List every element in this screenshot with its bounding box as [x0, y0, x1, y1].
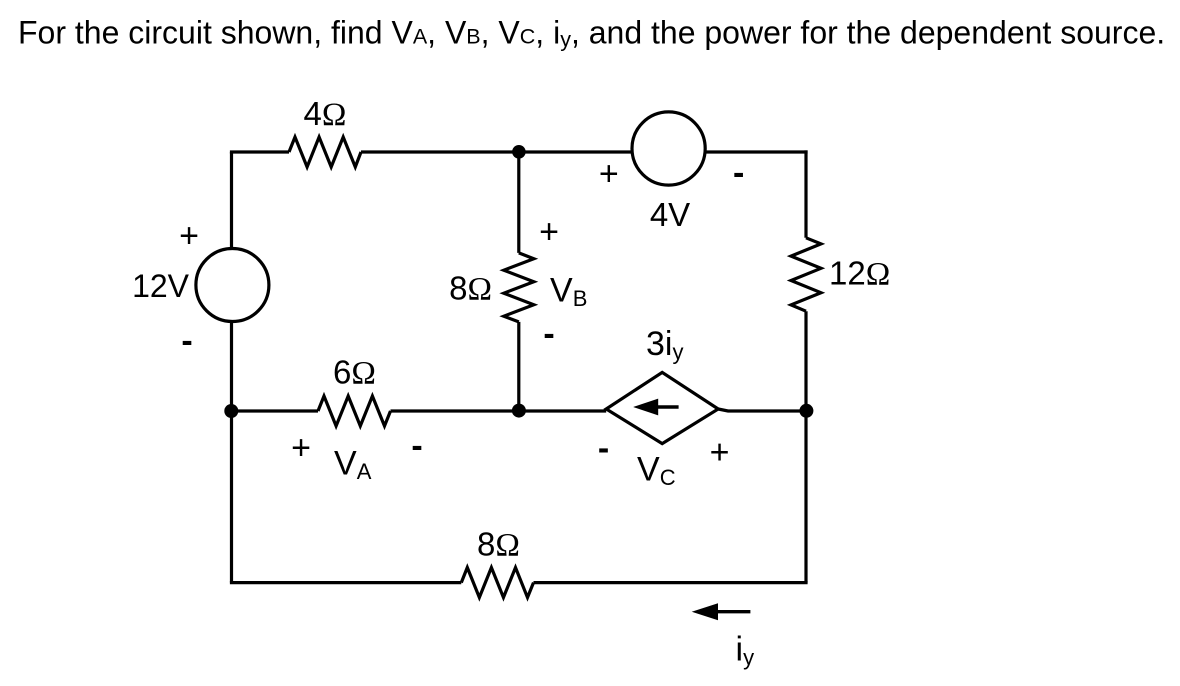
svg-text:3iy: 3iy: [646, 325, 683, 365]
wire middle vertical lower: [517, 322, 520, 411]
svg-text:8Ω: 8Ω: [449, 269, 492, 307]
svg-text:12Ω: 12Ω: [829, 255, 890, 293]
svg-text:VA: VA: [334, 445, 372, 485]
resistor R 12ohm: [791, 238, 821, 311]
node dot top: [512, 145, 526, 159]
voltage source 12V: [196, 249, 269, 322]
svg-text:For the circuit shown, find VA: For the circuit shown, find VA, VB, VC, …: [18, 15, 1165, 52]
wire right vertical upper: [804, 150, 807, 237]
wire left vertical middle: [230, 322, 233, 412]
svg-text:8Ω: 8Ω: [477, 526, 520, 564]
wire middle row second segment: [391, 409, 607, 412]
svg-text:6Ω: 6Ω: [333, 354, 376, 392]
wire top middle segment: [361, 150, 632, 153]
svg-text:4Ω: 4Ω: [304, 95, 347, 133]
wire middle vertical upper: [517, 152, 520, 253]
resistor R 4ohm: [289, 137, 361, 167]
svg-text:+: +: [291, 429, 311, 467]
current arrow iy: [692, 603, 751, 620]
arrow inside dependent source: [633, 399, 678, 416]
wire top right segment: [705, 150, 808, 153]
node dot right: [799, 404, 813, 418]
svg-text:VB: VB: [550, 272, 587, 312]
resistor R 8ohm bottom: [461, 568, 533, 598]
svg-text:-: -: [733, 154, 744, 192]
svg-text:+: +: [179, 217, 199, 255]
wire middle row right segment: [718, 409, 806, 411]
svg-text:12V: 12V: [132, 268, 190, 304]
wire left vertical lower: [230, 411, 233, 583]
dependent source 3iy diamond: [606, 372, 718, 443]
wire top left segment: [230, 150, 289, 153]
svg-text:-: -: [181, 322, 192, 360]
svg-text:-: -: [543, 315, 554, 353]
svg-text:VC: VC: [637, 450, 676, 490]
resistor R 8ohm middle: [504, 253, 534, 322]
node dot middle: [512, 404, 526, 418]
svg-text:4V: 4V: [650, 196, 690, 233]
resistor R 6ohm: [318, 396, 391, 426]
wire top-left vertical: [230, 152, 233, 249]
wire bottom right segment: [534, 581, 808, 584]
svg-text:-: -: [598, 429, 609, 467]
voltage source 4V: [632, 112, 705, 185]
svg-text:+: +: [539, 213, 559, 251]
svg-text:+: +: [599, 155, 619, 193]
wire bottom left segment: [230, 581, 461, 584]
wire middle row left segment: [232, 409, 319, 412]
svg-text:iy: iy: [736, 630, 755, 670]
svg-text:-: -: [411, 427, 422, 465]
node dot left: [224, 404, 238, 418]
wire right vertical lower: [804, 311, 807, 582]
svg-text:+: +: [710, 433, 730, 471]
